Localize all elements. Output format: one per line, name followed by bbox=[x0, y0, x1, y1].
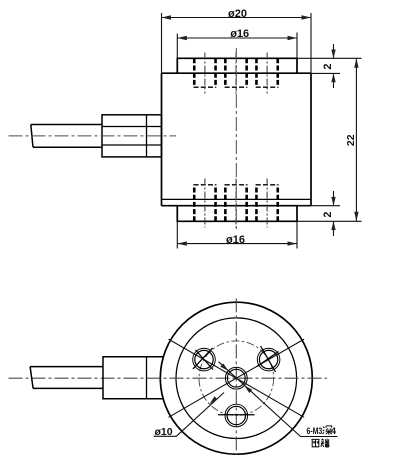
diaphragm weld line bbox=[162, 198, 312, 200]
centerline of hole T3 bbox=[266, 53, 268, 94]
bolt circle ø10 bbox=[199, 341, 274, 416]
svg-text:2: 2 bbox=[322, 63, 334, 69]
centerline of hole B1 bbox=[204, 179, 206, 228]
centerline of hole B3 bbox=[266, 179, 268, 228]
gland divider line bbox=[146, 115, 148, 157]
center hole bbox=[225, 367, 247, 389]
thread hole B3 (bottom face right, M3) bbox=[256, 185, 279, 222]
svg-text:ø20: ø20 bbox=[228, 8, 247, 20]
gland divider (bottom view) bbox=[146, 357, 148, 399]
centerline of hole T2 bbox=[235, 53, 237, 94]
cable (bottom view) bbox=[30, 367, 103, 389]
thread hole T1 (top face left, M3) bbox=[194, 58, 217, 87]
cable (side view) bbox=[31, 125, 102, 148]
body vertical centerline bbox=[235, 48, 237, 232]
dimension 22 (overall height) bbox=[355, 58, 357, 221]
svg-text:4: 4 bbox=[331, 426, 337, 437]
thread hole T2 (top face middle, M3) bbox=[225, 58, 248, 87]
leader for thread note bbox=[219, 362, 338, 437]
slot of upper-right screw bbox=[257, 352, 279, 367]
boss circle ø16 bbox=[176, 318, 297, 439]
leader for ø10 bbox=[154, 393, 225, 437]
screw hole bottom M3 bbox=[225, 404, 248, 427]
dimension 2 (bottom boss height) bbox=[297, 191, 362, 236]
cable bore lines through gland bbox=[102, 127, 162, 146]
glyph 深 bbox=[322, 426, 332, 435]
slot of upper-left screw bbox=[196, 350, 214, 370]
svg-text:22: 22 bbox=[345, 134, 357, 146]
cable gland block (bottom view) bbox=[103, 357, 163, 399]
bottom boss ø16 bbox=[177, 206, 297, 222]
svg-text:ø10: ø10 bbox=[155, 426, 173, 438]
diagonal centerline through upper-left hole bbox=[169, 339, 305, 417]
screw hole upper-left M3 bbox=[193, 348, 216, 371]
outer circle ø20 bbox=[160, 302, 312, 454]
svg-text:6-M3: 6-M3 bbox=[307, 426, 323, 437]
svg-text:2: 2 bbox=[322, 211, 334, 217]
slot of bottom screw bbox=[218, 414, 255, 416]
label both-ends (两端) bbox=[311, 439, 329, 447]
thread hole T3 (top face right, M3) bbox=[256, 58, 279, 87]
diagonal centerline through upper-right hole bbox=[169, 339, 305, 417]
cable centerline (side view) bbox=[9, 135, 177, 137]
svg-text:ø16: ø16 bbox=[230, 28, 249, 40]
centerline of hole B2 bbox=[235, 179, 237, 228]
dimension ø16 (bottom) bbox=[177, 221, 297, 248]
thread hole B1 (bottom face left, M3) bbox=[194, 185, 217, 222]
screw hole upper-right M3 bbox=[257, 348, 280, 371]
dimension ø20 bbox=[162, 13, 312, 73]
centerline of hole T1 bbox=[204, 53, 206, 94]
cable gland block (side view) bbox=[102, 115, 162, 157]
svg-text:ø16: ø16 bbox=[226, 234, 245, 246]
horizontal centerline bbox=[9, 377, 328, 379]
body outline ø20 cylinder bbox=[162, 73, 312, 206]
vertical centerline bbox=[235, 298, 237, 455]
dimension ø16 (top) bbox=[177, 33, 297, 59]
top boss ø16 bbox=[177, 58, 297, 73]
thread hole B2 (bottom face middle, M3) bbox=[225, 185, 248, 222]
dimension 2 (top boss height) bbox=[297, 44, 362, 88]
